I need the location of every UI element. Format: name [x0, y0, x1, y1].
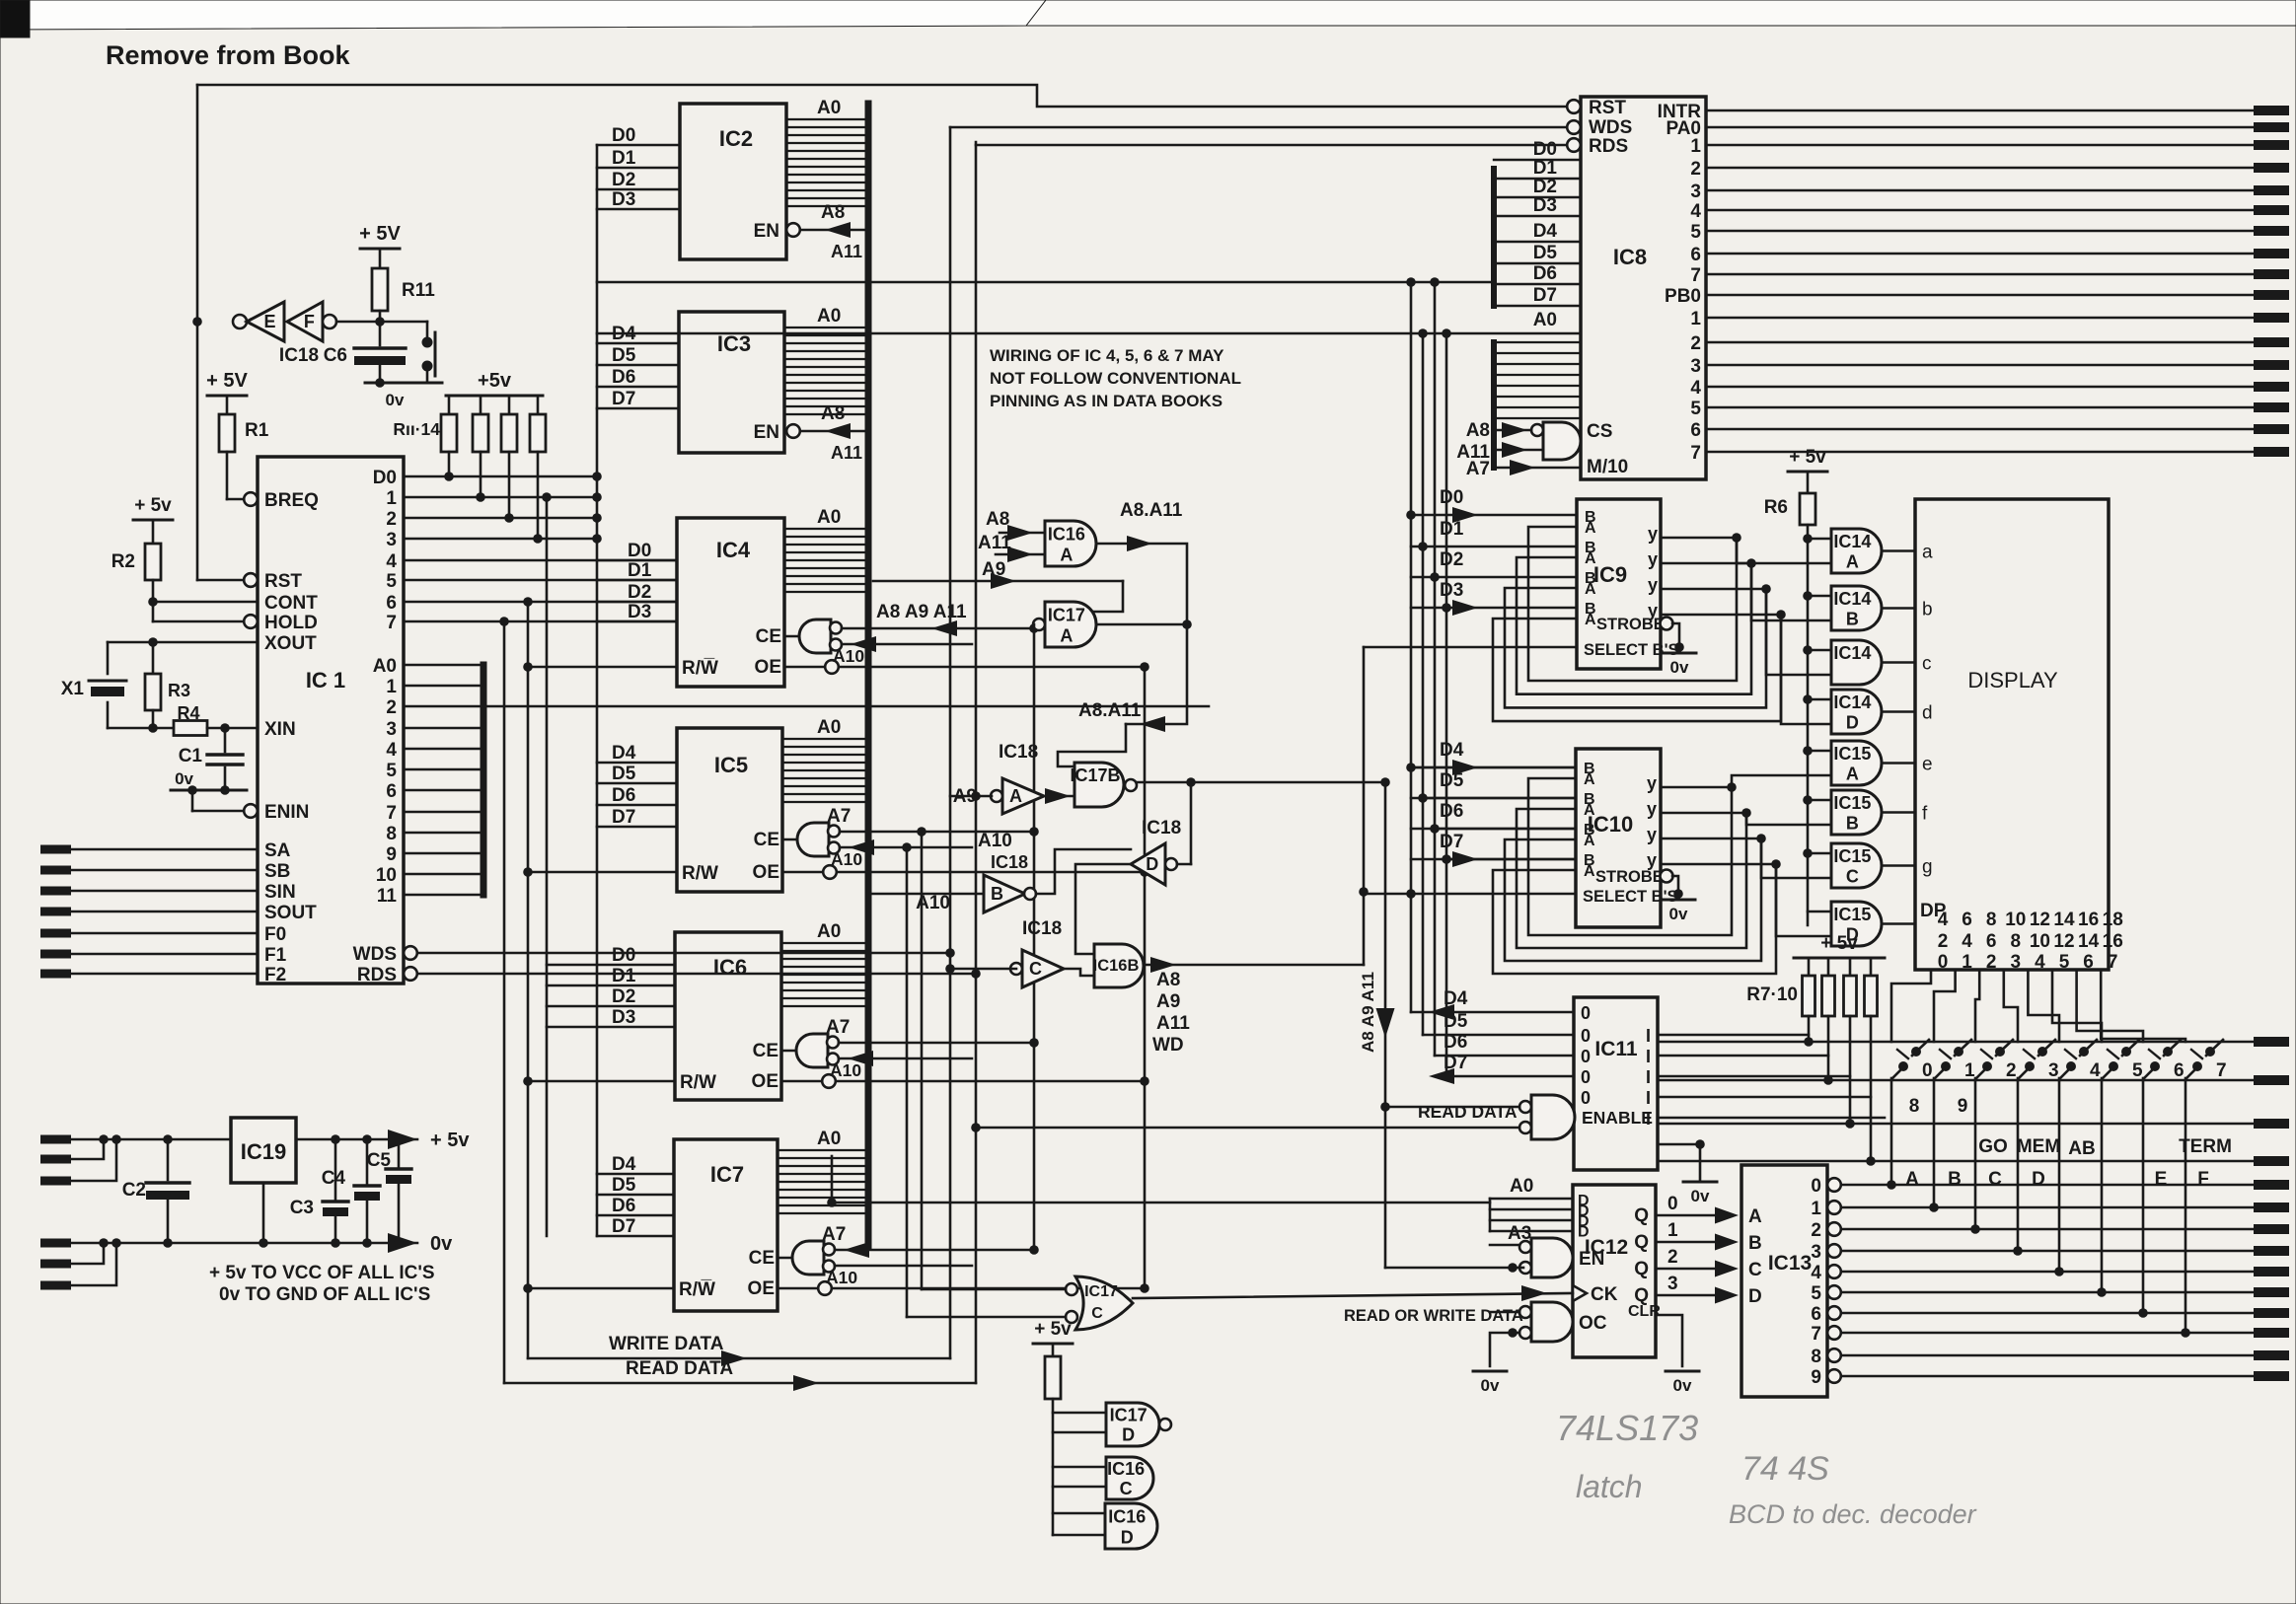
svg-text:X1: X1 [61, 679, 85, 699]
svg-text:3: 3 [386, 530, 397, 550]
svg-text:2: 2 [1667, 1247, 1678, 1268]
svg-text:IC16B: IC16B [1093, 957, 1140, 975]
svg-text:D4: D4 [1533, 221, 1558, 242]
svg-text:D7: D7 [1440, 832, 1463, 852]
svg-text:D6: D6 [1444, 1032, 1467, 1053]
svg-text:A11: A11 [1156, 1013, 1190, 1034]
svg-text:IC15: IC15 [1833, 793, 1871, 813]
svg-text:IC15: IC15 [1833, 744, 1871, 764]
svg-text:11: 11 [377, 886, 398, 907]
svg-text:2: 2 [386, 509, 397, 530]
svg-text:R6: R6 [1764, 497, 1788, 518]
svg-text:IC8: IC8 [1613, 245, 1647, 269]
svg-text:NOT FOLLOW CONVENTIONAL: NOT FOLLOW CONVENTIONAL [990, 369, 1241, 388]
svg-text:F: F [304, 312, 315, 331]
svg-text:IC5: IC5 [714, 753, 748, 777]
svg-text:+ 5V: + 5V [359, 223, 401, 245]
svg-text:B: B [991, 884, 1003, 904]
svg-text:4: 4 [386, 551, 397, 572]
svg-text:7: 7 [1690, 265, 1701, 286]
svg-text:A0: A0 [817, 921, 841, 942]
svg-text:+ 5v TO VCC OF ALL IC'S: + 5v TO VCC OF ALL IC'S [209, 1263, 435, 1283]
svg-text:EN: EN [754, 221, 779, 242]
svg-text:A7: A7 [822, 1224, 846, 1245]
svg-text:A8.A11: A8.A11 [1120, 500, 1183, 521]
svg-text:5: 5 [1690, 222, 1701, 243]
svg-text:CE: CE [753, 1041, 778, 1061]
svg-text:PINNING AS IN DATA BOOKS: PINNING AS IN DATA BOOKS [990, 392, 1222, 410]
svg-text:RST: RST [264, 571, 302, 592]
svg-text:IC19: IC19 [241, 1139, 286, 1164]
svg-text:0v: 0v [1670, 658, 1689, 677]
svg-text:1: 1 [1964, 1060, 1975, 1081]
svg-text:IC16: IC16 [1048, 524, 1085, 544]
svg-text:7: 7 [1811, 1324, 1821, 1345]
svg-text:A11: A11 [831, 443, 862, 463]
svg-text:D: D [1578, 1224, 1590, 1241]
svg-text:y: y [1648, 575, 1658, 595]
svg-text:y: y [1647, 825, 1657, 844]
svg-text:+5v: +5v [478, 370, 512, 392]
svg-text:D5: D5 [1440, 770, 1464, 791]
svg-text:c: c [1922, 654, 1932, 675]
svg-text:C: C [1029, 959, 1042, 979]
svg-text:6: 6 [1690, 420, 1701, 441]
svg-text:F0: F0 [264, 924, 286, 945]
svg-text:b: b [1922, 600, 1933, 620]
svg-text:y: y [1647, 773, 1657, 793]
svg-text:4: 4 [1690, 201, 1701, 222]
svg-text:B: B [1846, 610, 1859, 629]
svg-text:0: 0 [1667, 1194, 1678, 1214]
svg-text:I: I [1646, 1067, 1651, 1087]
svg-text:6: 6 [1962, 910, 1972, 930]
svg-text:A10: A10 [833, 646, 864, 666]
svg-text:D1: D1 [612, 148, 636, 169]
svg-text:F1: F1 [264, 945, 287, 966]
svg-text:SA: SA [264, 840, 291, 861]
svg-text:D7: D7 [612, 807, 635, 828]
svg-text:IC6: IC6 [713, 955, 747, 980]
svg-text:6: 6 [2083, 952, 2094, 973]
svg-text:+ 5V: + 5V [206, 370, 248, 392]
svg-text:D7: D7 [1533, 285, 1557, 306]
svg-text:Rıı·14: Rıı·14 [393, 419, 440, 439]
svg-text:C: C [1748, 1260, 1762, 1280]
svg-text:R/W: R/W [682, 863, 718, 884]
svg-text:4: 4 [386, 740, 397, 761]
svg-text:y: y [1648, 549, 1658, 569]
svg-text:4: 4 [1962, 931, 1972, 952]
svg-text:IC17: IC17 [1110, 1405, 1148, 1424]
svg-text:IC15: IC15 [1833, 846, 1871, 866]
svg-text:DISPLAY: DISPLAY [1967, 668, 2058, 693]
svg-text:D3: D3 [612, 189, 635, 210]
svg-text:A: A [1846, 765, 1859, 784]
svg-text:D6: D6 [1533, 263, 1557, 284]
svg-text:IC 1: IC 1 [306, 668, 345, 693]
svg-text:12: 12 [2030, 910, 2050, 930]
svg-text:10: 10 [376, 865, 397, 886]
svg-text:1: 1 [1690, 136, 1701, 157]
svg-text:latch: latch [1576, 1469, 1643, 1504]
svg-text:R11: R11 [402, 280, 435, 301]
svg-text:RST: RST [1589, 98, 1626, 118]
svg-text:2: 2 [1986, 952, 1997, 973]
svg-text:GO: GO [1978, 1136, 2008, 1157]
svg-text:5: 5 [1690, 399, 1701, 419]
svg-text:10: 10 [2030, 931, 2050, 952]
svg-text:D6: D6 [1440, 801, 1463, 822]
svg-text:D0: D0 [373, 468, 397, 488]
svg-text:IC13: IC13 [1768, 1252, 1812, 1275]
svg-text:3: 3 [1667, 1274, 1678, 1294]
svg-text:D6: D6 [612, 785, 635, 806]
svg-text:A8: A8 [986, 509, 1009, 530]
svg-text:IC17B: IC17B [1070, 766, 1120, 785]
svg-text:5: 5 [386, 571, 397, 592]
svg-text:M/10: M/10 [1587, 457, 1628, 477]
svg-text:WIRING OF IC 4, 5, 6 & 7 MAY: WIRING OF IC 4, 5, 6 & 7 MAY [990, 346, 1224, 365]
svg-text:IC18: IC18 [279, 345, 319, 366]
svg-text:0v: 0v [1673, 1376, 1692, 1395]
svg-text:D7: D7 [612, 389, 635, 409]
svg-text:4: 4 [1690, 378, 1701, 399]
svg-text:Q: Q [1634, 1259, 1649, 1279]
svg-text:A0: A0 [817, 1129, 841, 1149]
svg-text:18: 18 [2103, 910, 2123, 930]
svg-text:g: g [1922, 857, 1933, 878]
svg-text:C2: C2 [122, 1180, 146, 1201]
svg-text:A: A [1584, 863, 1595, 880]
svg-text:D: D [1146, 854, 1158, 874]
svg-text:OE: OE [752, 1071, 778, 1092]
svg-text:A10: A10 [826, 1268, 857, 1287]
svg-text:0v: 0v [1691, 1187, 1710, 1205]
svg-text:IC4: IC4 [716, 538, 751, 562]
svg-text:IC11: IC11 [1594, 1038, 1638, 1060]
svg-text:R1: R1 [245, 420, 269, 441]
svg-text:e: e [1922, 755, 1933, 775]
svg-text:CS: CS [1587, 421, 1612, 442]
svg-text:C5: C5 [367, 1150, 392, 1171]
svg-text:D4: D4 [1444, 988, 1468, 1009]
svg-text:STROBE: STROBE [1595, 868, 1664, 886]
svg-text:SIN: SIN [264, 882, 296, 903]
svg-text:4: 4 [2035, 952, 2045, 973]
svg-text:2: 2 [1938, 931, 1949, 952]
svg-text:y: y [1647, 799, 1657, 819]
svg-text:8: 8 [1811, 1347, 1821, 1367]
svg-text:A8: A8 [821, 403, 845, 424]
svg-text:RDS: RDS [357, 965, 397, 985]
svg-text:A0: A0 [817, 306, 841, 327]
svg-text:+ 5v: + 5v [430, 1130, 470, 1151]
svg-text:7: 7 [2108, 952, 2118, 973]
svg-text:A: A [1584, 771, 1595, 788]
svg-text:3: 3 [2048, 1060, 2059, 1081]
svg-text:CONT: CONT [264, 593, 318, 614]
svg-text:A11: A11 [978, 533, 1011, 553]
svg-text:A7: A7 [826, 1017, 850, 1038]
svg-text:D: D [2032, 1169, 2045, 1190]
svg-text:+ 5v: + 5v [1034, 1319, 1072, 1340]
svg-text:A0: A0 [817, 98, 841, 118]
svg-text:E: E [2155, 1169, 2168, 1190]
svg-text:D2: D2 [612, 170, 635, 190]
svg-text:A: A [1905, 1169, 1919, 1190]
svg-text:OE: OE [755, 657, 781, 678]
svg-text:XIN: XIN [264, 719, 296, 740]
svg-text:1: 1 [1811, 1199, 1821, 1219]
svg-text:D2: D2 [1440, 549, 1463, 570]
svg-text:A10: A10 [831, 849, 862, 869]
svg-text:6: 6 [386, 593, 397, 614]
svg-text:C3: C3 [290, 1198, 314, 1218]
svg-text:A8: A8 [1466, 420, 1490, 441]
svg-text:IC17: IC17 [1084, 1283, 1118, 1300]
svg-text:CE: CE [756, 626, 781, 647]
svg-text:A10: A10 [978, 831, 1012, 851]
svg-text:D: D [1121, 1527, 1134, 1547]
svg-text:14: 14 [2078, 931, 2100, 952]
svg-text:B: B [1948, 1169, 1962, 1190]
svg-text:Q: Q [1634, 1232, 1649, 1253]
svg-text:I: I [1646, 1088, 1651, 1108]
svg-text:C1: C1 [179, 746, 203, 766]
svg-text:A8.A11: A8.A11 [1078, 700, 1142, 721]
svg-text:R2: R2 [111, 551, 135, 572]
svg-text:f: f [1922, 804, 1928, 825]
svg-text:D4: D4 [612, 1154, 636, 1175]
svg-text:5: 5 [2059, 952, 2070, 973]
svg-text:A: A [1584, 833, 1595, 849]
svg-text:D1: D1 [612, 966, 636, 986]
svg-text:2: 2 [1690, 333, 1701, 354]
svg-text:9: 9 [386, 844, 397, 865]
svg-text:0: 0 [1811, 1176, 1821, 1197]
svg-text:D4: D4 [612, 743, 636, 764]
svg-text:5: 5 [1811, 1283, 1821, 1304]
svg-text:A0: A0 [1510, 1176, 1533, 1197]
svg-text:A: A [1585, 520, 1596, 537]
svg-text:RDS: RDS [1589, 136, 1628, 157]
svg-text:2: 2 [1811, 1220, 1821, 1241]
svg-text:8: 8 [2011, 931, 2022, 952]
svg-text:AB: AB [2068, 1138, 2095, 1159]
svg-text:WRITE DATA: WRITE DATA [609, 1334, 724, 1354]
svg-text:C: C [1091, 1305, 1103, 1322]
svg-text:A: A [1009, 786, 1022, 806]
svg-text:+ 5v: + 5v [1789, 447, 1826, 468]
svg-text:10: 10 [2005, 910, 2026, 930]
svg-text:0: 0 [1581, 1067, 1591, 1087]
svg-text:7: 7 [386, 613, 397, 633]
svg-text:IC15: IC15 [1833, 905, 1871, 924]
svg-text:0v TO GND OF ALL IC'S: 0v TO GND OF ALL IC'S [219, 1284, 430, 1305]
svg-text:OC: OC [1579, 1313, 1607, 1334]
svg-text:Remove from Book: Remove from Book [106, 40, 351, 70]
svg-text:y: y [1647, 850, 1657, 870]
svg-text:+ 5v: + 5v [1820, 933, 1858, 954]
svg-text:C6: C6 [324, 345, 347, 366]
svg-text:3: 3 [386, 719, 397, 740]
svg-text:Q: Q [1634, 1205, 1649, 1226]
svg-text:F2: F2 [264, 965, 286, 985]
svg-text:D1: D1 [628, 560, 652, 581]
svg-text:2: 2 [386, 697, 397, 718]
svg-text:A8: A8 [821, 202, 845, 223]
svg-text:2: 2 [2006, 1060, 2017, 1081]
svg-text:C: C [1988, 1169, 2002, 1190]
svg-text:C: C [1846, 867, 1859, 887]
svg-text:IC18: IC18 [991, 852, 1028, 872]
svg-text:R3: R3 [168, 681, 190, 700]
svg-text:4: 4 [1938, 910, 1949, 930]
svg-text:SELECT B'S: SELECT B'S [1583, 888, 1678, 906]
svg-text:3: 3 [1690, 182, 1701, 202]
svg-text:1: 1 [1962, 952, 1972, 973]
svg-text:8: 8 [386, 824, 397, 844]
svg-text:C: C [1120, 1479, 1133, 1498]
svg-text:3: 3 [1690, 356, 1701, 377]
svg-text:y: y [1648, 524, 1658, 544]
svg-text:6: 6 [386, 781, 397, 802]
svg-text:A: A [1846, 552, 1859, 572]
svg-text:D2: D2 [612, 986, 635, 1007]
svg-text:SOUT: SOUT [264, 903, 317, 923]
svg-text:A: A [1585, 550, 1596, 567]
svg-text:A: A [1060, 625, 1073, 645]
svg-text:A0: A0 [817, 507, 841, 528]
svg-text:A10: A10 [830, 1060, 861, 1080]
svg-text:0: 0 [1581, 1088, 1591, 1108]
svg-text:5: 5 [386, 761, 397, 781]
svg-text:6: 6 [2174, 1060, 2185, 1081]
svg-text:0v: 0v [386, 391, 405, 409]
svg-text:5: 5 [2132, 1060, 2143, 1081]
svg-text:I: I [1646, 1026, 1651, 1046]
svg-text:A: A [1584, 802, 1595, 819]
svg-text:D: D [1846, 713, 1859, 733]
svg-text:A11: A11 [831, 242, 862, 261]
svg-text:D3: D3 [612, 1007, 635, 1028]
svg-text:0: 0 [1581, 1026, 1591, 1046]
svg-text:1: 1 [386, 488, 397, 509]
svg-text:HOLD: HOLD [264, 613, 318, 633]
svg-text:B: B [1748, 1233, 1762, 1254]
svg-text:D: D [1748, 1286, 1762, 1307]
svg-text:IC18: IC18 [999, 742, 1038, 763]
svg-text:READ OR WRITE DATA: READ OR WRITE DATA [1344, 1307, 1523, 1325]
svg-text:A8 A9 A11: A8 A9 A11 [876, 602, 967, 622]
svg-text:IC9: IC9 [1593, 562, 1627, 587]
svg-text:9: 9 [1811, 1367, 1821, 1388]
svg-text:XOUT: XOUT [264, 633, 317, 654]
svg-text:D3: D3 [1533, 195, 1557, 216]
svg-text:A: A [1060, 545, 1073, 564]
svg-text:C4: C4 [322, 1168, 346, 1189]
svg-text:D1: D1 [1440, 519, 1464, 540]
svg-text:D7: D7 [1444, 1053, 1467, 1073]
svg-text:MEM: MEM [2017, 1136, 2060, 1157]
svg-text:BCD to dec. decoder: BCD to dec. decoder [1729, 1499, 1977, 1529]
svg-text:EN: EN [1579, 1249, 1604, 1270]
svg-text:y: y [1648, 601, 1658, 620]
svg-text:WD: WD [1152, 1035, 1184, 1056]
svg-text:R4: R4 [177, 703, 199, 723]
svg-text:7: 7 [2216, 1060, 2227, 1081]
svg-text:0v: 0v [430, 1233, 453, 1255]
svg-text:2: 2 [1690, 159, 1701, 180]
svg-text:D6: D6 [612, 1196, 635, 1216]
svg-text:EN: EN [754, 422, 779, 443]
svg-text:D2: D2 [628, 582, 651, 603]
svg-text:B: B [1846, 814, 1859, 834]
svg-text:D0: D0 [1440, 487, 1463, 508]
svg-text:D1: D1 [1533, 158, 1558, 179]
svg-text:IC14: IC14 [1833, 532, 1871, 551]
svg-text:A7: A7 [1466, 459, 1490, 479]
svg-text:D6: D6 [612, 367, 635, 388]
svg-text:D5: D5 [612, 345, 636, 366]
svg-text:8: 8 [1986, 910, 1997, 930]
svg-text:IC17: IC17 [1048, 605, 1085, 624]
svg-text:16: 16 [2103, 931, 2123, 952]
svg-text:1: 1 [1690, 309, 1701, 329]
svg-text:0v: 0v [175, 769, 193, 788]
svg-text:D5: D5 [612, 1175, 636, 1196]
svg-text:IC16: IC16 [1107, 1459, 1145, 1479]
svg-text:READ DATA: READ DATA [1418, 1102, 1518, 1122]
svg-text:9: 9 [1958, 1096, 1968, 1117]
svg-text:OE: OE [753, 862, 779, 883]
svg-text:IC7: IC7 [710, 1162, 744, 1187]
svg-text:12: 12 [2053, 931, 2074, 952]
svg-text:d: d [1922, 703, 1933, 724]
svg-text:IC14: IC14 [1833, 589, 1871, 609]
svg-text:R/W̅: R/W̅ [679, 1279, 715, 1300]
svg-text:a: a [1922, 543, 1933, 563]
svg-text:WDS: WDS [353, 944, 397, 965]
svg-text:E: E [264, 312, 276, 331]
svg-text:74LS173: 74LS173 [1556, 1408, 1698, 1448]
svg-text:R7·10: R7·10 [1746, 984, 1798, 1005]
svg-text:PB0: PB0 [1665, 286, 1701, 307]
svg-text:D7: D7 [612, 1216, 635, 1237]
svg-text:OE: OE [748, 1278, 775, 1299]
svg-text:0: 0 [1581, 1003, 1591, 1023]
svg-text:D3: D3 [628, 602, 651, 622]
svg-text:IC18: IC18 [1022, 918, 1062, 939]
svg-text:0v: 0v [1669, 905, 1688, 923]
svg-text:4: 4 [2090, 1060, 2101, 1081]
svg-text:0: 0 [1922, 1060, 1933, 1081]
svg-text:D5: D5 [1533, 243, 1558, 263]
svg-text:3: 3 [2011, 952, 2022, 973]
svg-text:16: 16 [2078, 910, 2099, 930]
svg-text:ENIN: ENIN [264, 802, 309, 823]
svg-text:D0: D0 [1533, 139, 1557, 160]
svg-text:A: A [1585, 612, 1596, 628]
svg-text:7: 7 [1690, 443, 1701, 464]
svg-text:0: 0 [1938, 952, 1949, 973]
svg-text:A0: A0 [373, 656, 397, 677]
svg-text:6: 6 [1811, 1304, 1821, 1325]
svg-text:D0: D0 [612, 945, 635, 966]
svg-text:IC14: IC14 [1833, 643, 1871, 663]
svg-text:D: D [1122, 1425, 1135, 1445]
